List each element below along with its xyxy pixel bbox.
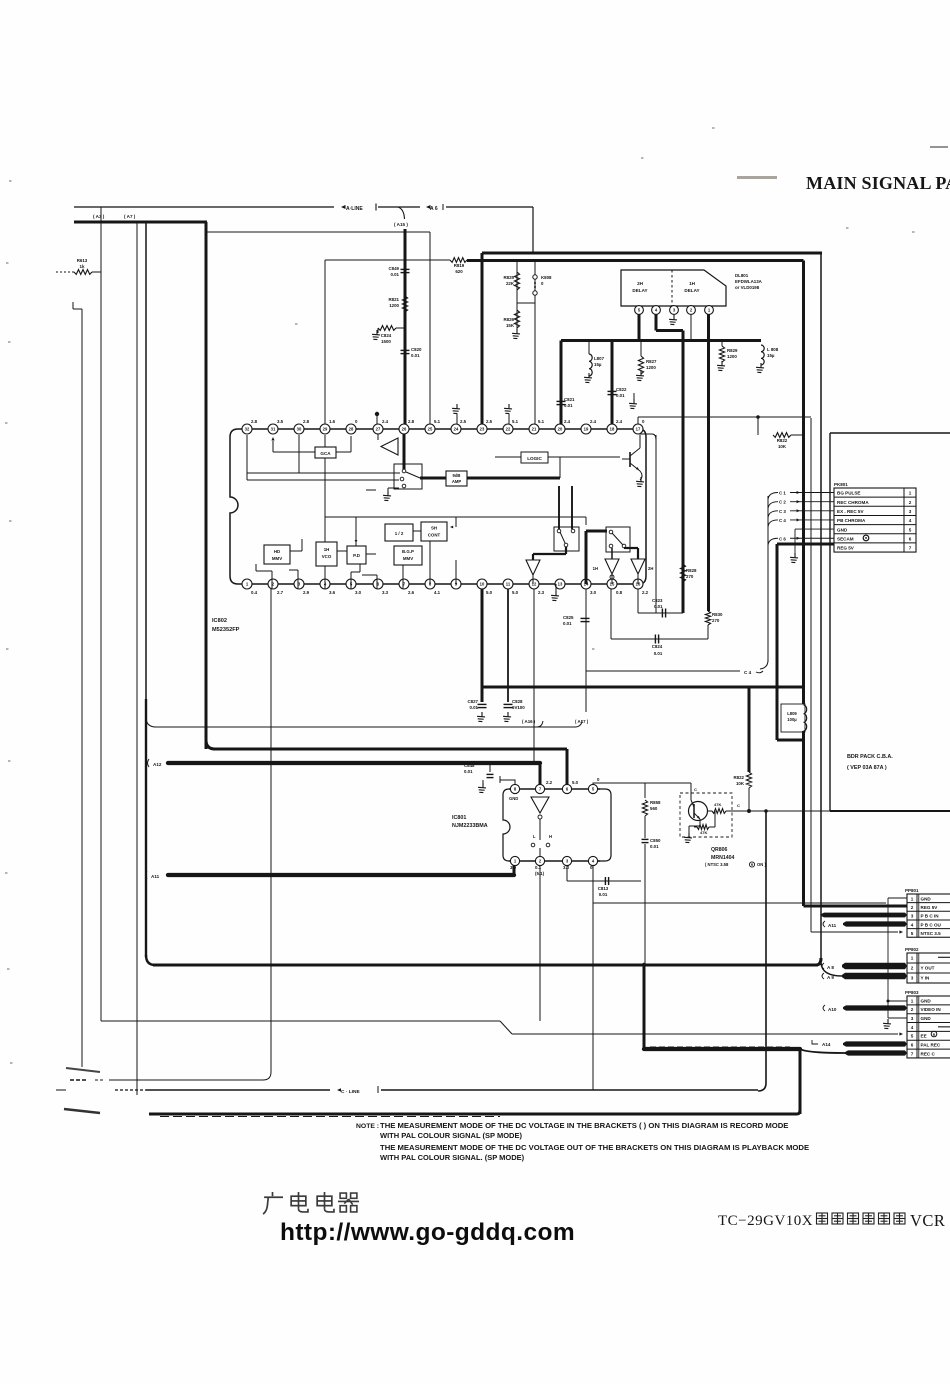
svg-text:C824: C824 [381, 333, 392, 338]
svg-text:C 6: C 6 [779, 536, 786, 541]
svg-text:0.01: 0.01 [464, 769, 473, 774]
svg-text:2.4: 2.4 [382, 419, 389, 424]
svg-text:C824: C824 [652, 644, 663, 649]
svg-text:WITH PAL COLOUR SIGNAL (SP MO: WITH PAL COLOUR SIGNAL (SP MODE) [380, 1131, 522, 1140]
svg-text:5.0: 5.0 [572, 780, 579, 785]
svg-text:2.8: 2.8 [408, 419, 415, 424]
svg-text:( NTSC 3.58: ( NTSC 3.58 [705, 862, 729, 867]
svg-text:0.01: 0.01 [599, 892, 608, 897]
svg-text:R822: R822 [734, 775, 745, 780]
svg-text:270: 270 [686, 574, 694, 579]
svg-text:THE MEASUREMENT MODE OF THE DC: THE MEASUREMENT MODE OF THE DC VOLTAGE O… [380, 1143, 809, 1152]
svg-text:5.0: 5.0 [486, 590, 493, 595]
svg-text:1H: 1H [593, 566, 598, 571]
svg-text:10: 10 [480, 582, 485, 587]
svg-text:C823: C823 [652, 598, 663, 603]
svg-text:0.01: 0.01 [563, 621, 572, 626]
svg-text:C: C [694, 787, 697, 792]
svg-text:6: 6 [911, 1043, 914, 1048]
svg-text:3: 3 [911, 975, 914, 980]
svg-text:32: 32 [245, 427, 250, 432]
svg-text:R822: R822 [777, 438, 788, 443]
svg-text:C821: C821 [564, 397, 575, 402]
svg-text:B.G.P: B.G.P [402, 549, 414, 554]
svg-text:2.2: 2.2 [546, 780, 553, 785]
svg-text:2.4: 2.4 [590, 419, 597, 424]
svg-text:A11: A11 [151, 874, 160, 879]
svg-text:0.01: 0.01 [650, 844, 659, 849]
svg-text:11: 11 [506, 582, 511, 587]
svg-text:or VLD0198: or VLD0198 [735, 285, 760, 290]
svg-text:EX . REC 5V: EX . REC 5V [837, 509, 864, 514]
svg-text:REG 5V: REG 5V [921, 905, 939, 910]
svg-text:1.6: 1.6 [329, 419, 336, 424]
svg-text:1: 1 [911, 896, 914, 901]
svg-text:0: 0 [355, 419, 358, 424]
svg-text:BG PULSE: BG PULSE [837, 491, 860, 496]
svg-text:22K: 22K [506, 281, 515, 286]
svg-text:0.01: 0.01 [654, 604, 663, 609]
svg-text:1200: 1200 [389, 303, 399, 308]
svg-text:47K: 47K [714, 802, 721, 807]
svg-text:2H: 2H [648, 566, 653, 571]
svg-text:15µ: 15µ [767, 353, 775, 358]
svg-text:5.1: 5.1 [434, 419, 441, 424]
svg-text:4: 4 [909, 518, 912, 523]
svg-text:VCR: VCR [910, 1211, 945, 1230]
svg-text:20: 20 [558, 427, 563, 432]
svg-text:M52352FP: M52352FP [212, 627, 240, 633]
svg-text:0.01: 0.01 [564, 403, 573, 408]
svg-text:C 1: C 1 [779, 491, 786, 496]
svg-text:10K: 10K [736, 781, 745, 786]
svg-text:0: 0 [541, 281, 544, 286]
svg-text:C813: C813 [598, 886, 609, 891]
svg-text:VIDEO IN: VIDEO IN [921, 1007, 942, 1012]
svg-text:REC CHROMA: REC CHROMA [837, 500, 869, 505]
svg-text:GCA: GCA [320, 451, 331, 456]
svg-text:1200: 1200 [727, 354, 737, 359]
svg-text:3: 3 [911, 1016, 914, 1021]
svg-text:19: 19 [584, 427, 589, 432]
svg-text:C850: C850 [650, 838, 661, 843]
svg-text:C820: C820 [411, 347, 422, 352]
svg-text:C828: C828 [512, 699, 523, 704]
svg-text:QR806: QR806 [711, 847, 728, 853]
svg-text:6: 6 [909, 536, 912, 541]
svg-text:28: 28 [349, 427, 354, 432]
svg-text:MMV: MMV [403, 556, 413, 561]
svg-text:5: 5 [909, 527, 912, 532]
svg-text:EFDWLA13A: EFDWLA13A [735, 279, 763, 284]
svg-text:( A3 ): ( A3 ) [93, 214, 105, 219]
svg-text:R827: R827 [646, 359, 657, 364]
svg-text:6V100: 6V100 [512, 705, 525, 710]
svg-text:10K: 10K [778, 444, 787, 449]
svg-text:IC802: IC802 [212, 618, 227, 624]
svg-text:MRN1404: MRN1404 [711, 855, 734, 861]
svg-text:R826: R826 [504, 317, 515, 322]
svg-text:2.2: 2.2 [642, 590, 649, 595]
svg-text:5.1: 5.1 [538, 419, 545, 424]
svg-text:R821: R821 [389, 297, 400, 302]
svg-text:21: 21 [532, 427, 537, 432]
svg-text:C 4: C 4 [744, 670, 752, 675]
svg-text:2: 2 [911, 905, 914, 910]
svg-text:47K: 47K [700, 830, 707, 835]
svg-text:0.01: 0.01 [411, 353, 420, 358]
svg-text:THE MEASUREMENT MODE OF THE DC: THE MEASUREMENT MODE OF THE DC VOLTAGE I… [380, 1121, 788, 1130]
svg-text:C848: C848 [464, 763, 475, 768]
svg-text:GND: GND [921, 998, 932, 1003]
svg-text:2H: 2H [637, 281, 644, 286]
svg-text:22: 22 [506, 427, 511, 432]
svg-text:12: 12 [532, 582, 537, 587]
svg-text:13: 13 [558, 582, 563, 587]
svg-text:0.4: 0.4 [251, 590, 258, 595]
svg-text:R828: R828 [686, 568, 697, 573]
svg-text:5.0: 5.0 [512, 590, 519, 595]
svg-text:Y IN: Y IN [921, 975, 931, 980]
svg-text:L809: L809 [787, 711, 797, 716]
svg-text:A11: A11 [828, 923, 837, 928]
svg-text:2.6: 2.6 [408, 590, 415, 595]
svg-text:15µ: 15µ [594, 362, 602, 367]
svg-text:3.0: 3.0 [563, 865, 570, 870]
svg-text:C: C [737, 803, 740, 808]
svg-text:17: 17 [636, 427, 641, 432]
svg-text:2: 2 [911, 965, 914, 970]
svg-text:NOTE :: NOTE : [356, 1123, 379, 1130]
svg-text:HD: HD [274, 549, 280, 554]
svg-text:MAIN SIGNAL PA: MAIN SIGNAL PA [806, 173, 950, 193]
svg-text:2.4: 2.4 [616, 419, 623, 424]
svg-text:0.01: 0.01 [469, 705, 478, 710]
svg-text:NTSC 3.5: NTSC 3.5 [921, 931, 942, 936]
svg-text:1500: 1500 [381, 339, 391, 344]
svg-text:L807: L807 [594, 356, 605, 361]
svg-text:A 8: A 8 [827, 965, 834, 970]
svg-text:2.5: 2.5 [460, 419, 467, 424]
svg-text:C822: C822 [616, 387, 627, 392]
svg-text:620: 620 [455, 269, 463, 274]
svg-text:EE: EE [921, 1034, 927, 1039]
svg-text:AMP: AMP [452, 479, 462, 484]
svg-text:SH: SH [431, 526, 437, 531]
svg-text:C 3: C 3 [779, 509, 786, 514]
svg-text:1H: 1H [689, 281, 696, 286]
svg-text:2.9: 2.9 [303, 590, 310, 595]
svg-text:4: 4 [911, 922, 914, 927]
svg-text:R819: R819 [454, 263, 465, 268]
svg-text:2.8: 2.8 [251, 419, 258, 424]
svg-text:9dB: 9dB [453, 473, 461, 478]
svg-text:0.1: 0.1 [535, 865, 542, 870]
svg-text:PP803: PP803 [905, 990, 919, 995]
svg-text:P.D: P.D [353, 553, 360, 558]
svg-text:3.3: 3.3 [382, 590, 389, 595]
svg-text:IC801: IC801 [452, 815, 466, 821]
svg-text:C 2: C 2 [779, 500, 786, 505]
svg-text:P B C IN: P B C IN [921, 914, 940, 919]
svg-text:DL801: DL801 [735, 273, 749, 278]
svg-text:R858: R858 [650, 800, 661, 805]
svg-text:DELAY: DELAY [684, 288, 699, 293]
svg-text:2: 2 [911, 1007, 914, 1012]
svg-text:27: 27 [376, 427, 381, 432]
svg-text:BDR PACK C.B.A.: BDR PACK C.B.A. [847, 754, 893, 760]
svg-text:( A15 ): ( A15 ) [394, 222, 408, 227]
svg-text:560: 560 [650, 806, 658, 811]
svg-text:0.01: 0.01 [654, 651, 663, 656]
svg-text:4: 4 [911, 1025, 914, 1030]
svg-text:PP801: PP801 [905, 888, 919, 893]
svg-text:R613: R613 [77, 258, 88, 263]
svg-text:P B C OU: P B C OU [921, 922, 942, 927]
svg-text:A12: A12 [153, 762, 162, 767]
svg-text:http://www.go-gddq.com: http://www.go-gddq.com [280, 1219, 575, 1246]
svg-text:3.0: 3.0 [590, 590, 597, 595]
svg-text:R830: R830 [712, 612, 723, 617]
svg-text:1: 1 [911, 955, 914, 960]
svg-text:A·LINE: A·LINE [346, 206, 363, 212]
svg-text:CONT: CONT [428, 533, 441, 538]
svg-text:24: 24 [454, 427, 459, 432]
svg-text:0: 0 [642, 419, 645, 424]
svg-text:1 / 2: 1 / 2 [395, 531, 404, 536]
svg-text:7: 7 [909, 546, 912, 551]
svg-text:3.0: 3.0 [355, 590, 362, 595]
svg-text:( A16 ): ( A16 ) [522, 719, 536, 724]
svg-text:29: 29 [323, 427, 328, 432]
svg-text:L: L [533, 834, 536, 839]
svg-text:Y OUT: Y OUT [921, 965, 935, 970]
svg-text:5: 5 [911, 931, 914, 936]
svg-text:C · LINE: C · LINE [341, 1089, 360, 1095]
svg-text:NJM2233BMA: NJM2233BMA [452, 823, 488, 829]
svg-text:R825: R825 [504, 275, 515, 280]
svg-text:PK801: PK801 [834, 482, 848, 487]
svg-text:0: 0 [597, 777, 600, 782]
svg-text:WITH PAL COLOUR SIGNAL. (SP MO: WITH PAL COLOUR SIGNAL. (SP MODE) [380, 1153, 525, 1162]
svg-text:C825: C825 [563, 615, 574, 620]
svg-text:25: 25 [428, 427, 433, 432]
svg-text:2.8: 2.8 [303, 419, 310, 424]
svg-text:0.01: 0.01 [390, 272, 399, 277]
svg-text:C827: C827 [468, 699, 479, 704]
svg-text:PP802: PP802 [905, 947, 919, 952]
svg-text:2.3: 2.3 [538, 590, 545, 595]
svg-text:1: 1 [911, 998, 914, 1003]
svg-text:R829: R829 [727, 348, 738, 353]
svg-text:7: 7 [911, 1051, 914, 1056]
svg-text:GND: GND [921, 1016, 932, 1021]
svg-text:2: 2 [909, 500, 912, 505]
svg-text:L 808: L 808 [767, 347, 779, 352]
svg-text:H: H [549, 834, 552, 839]
svg-text:REG 5V: REG 5V [837, 546, 855, 551]
svg-text:( VEP 03A 87A ): ( VEP 03A 87A ) [847, 765, 887, 771]
svg-text:3.5: 3.5 [277, 419, 284, 424]
svg-text:3.0: 3.0 [510, 865, 517, 870]
svg-text:PAL REC: PAL REC [921, 1043, 941, 1048]
svg-text:1k: 1k [80, 264, 85, 269]
svg-text:18: 18 [610, 427, 615, 432]
svg-text:A14: A14 [822, 1042, 831, 1047]
svg-text:5.1: 5.1 [512, 419, 519, 424]
svg-text:5: 5 [911, 1034, 914, 1039]
svg-text:C849: C849 [389, 266, 400, 271]
svg-text:0.01: 0.01 [616, 393, 625, 398]
svg-text:C 4: C 4 [779, 518, 786, 523]
svg-text:PB CHROMA: PB CHROMA [837, 518, 866, 523]
svg-text:VCO: VCO [322, 554, 332, 559]
svg-text:100µ: 100µ [787, 717, 797, 722]
svg-text:GND: GND [837, 527, 848, 532]
svg-text:GND: GND [509, 796, 518, 801]
svg-text:K808: K808 [541, 275, 552, 280]
svg-text:2.7: 2.7 [277, 590, 284, 595]
svg-text:2.5: 2.5 [486, 419, 493, 424]
svg-text:DELAY: DELAY [632, 288, 647, 293]
svg-text:2.4: 2.4 [564, 419, 571, 424]
svg-text:15K: 15K [506, 323, 515, 328]
svg-text:26: 26 [402, 427, 407, 432]
svg-text:3: 3 [911, 914, 914, 919]
svg-text:A 6: A 6 [430, 206, 438, 212]
svg-text:A10: A10 [828, 1007, 837, 1012]
svg-text:GND: GND [921, 896, 932, 901]
svg-text:31: 31 [271, 427, 276, 432]
svg-text:REC C: REC C [921, 1051, 936, 1056]
svg-text:SECAM: SECAM [837, 536, 854, 541]
svg-text:3.6: 3.6 [329, 590, 336, 595]
svg-text:ON ): ON ) [757, 862, 766, 867]
svg-text:1H: 1H [324, 547, 330, 552]
svg-text:4.1: 4.1 [434, 590, 441, 595]
svg-text:LOGIC: LOGIC [527, 456, 542, 461]
svg-text:1200: 1200 [646, 365, 656, 370]
svg-text:270: 270 [712, 618, 720, 623]
svg-text:MMV: MMV [272, 556, 282, 561]
svg-text:3: 3 [909, 509, 912, 514]
svg-text:23: 23 [480, 427, 485, 432]
svg-text:0.8: 0.8 [616, 590, 623, 595]
svg-text:TC−29GV10X: TC−29GV10X [718, 1213, 813, 1229]
svg-text:30: 30 [297, 427, 302, 432]
svg-text:( A7 ): ( A7 ) [124, 214, 136, 219]
svg-text:1: 1 [909, 491, 912, 496]
